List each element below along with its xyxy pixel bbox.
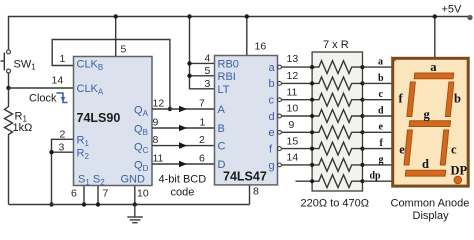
svg-text:11: 11 bbox=[153, 153, 164, 165]
clock waveform symbol bbox=[56, 93, 67, 103]
svg-text:A: A bbox=[218, 104, 226, 116]
wire S1 drop bbox=[83, 186, 85, 205]
svg-text:a: a bbox=[269, 62, 276, 74]
resistor Re bbox=[312, 126, 362, 139]
node junction R1R2 ground bbox=[49, 202, 53, 206]
svg-text:13: 13 bbox=[287, 53, 299, 65]
arrow QC bbox=[179, 142, 187, 149]
svg-text:8: 8 bbox=[153, 134, 159, 146]
svg-text:e: e bbox=[379, 122, 384, 133]
svg-text:d: d bbox=[269, 111, 275, 123]
svg-text:d: d bbox=[422, 157, 429, 171]
svg-text:c: c bbox=[269, 95, 275, 107]
segment d bbox=[405, 170, 445, 176]
resistor Rf bbox=[312, 142, 362, 155]
node junction RBI stub bbox=[187, 74, 191, 78]
svg-text:74LS47: 74LS47 bbox=[223, 170, 267, 184]
svg-text:1: 1 bbox=[200, 117, 206, 129]
node junction S2 bbox=[96, 202, 100, 206]
wire QC to C bbox=[152, 145, 215, 147]
svg-text:5: 5 bbox=[205, 65, 211, 77]
svg-text:4: 4 bbox=[205, 53, 211, 65]
resistor Rdp bbox=[312, 175, 362, 188]
svg-text:10: 10 bbox=[287, 103, 299, 115]
svg-text:b: b bbox=[269, 78, 275, 90]
display module body bbox=[393, 58, 469, 186]
svg-text:7: 7 bbox=[103, 188, 109, 200]
wire GND pin10 drop bbox=[134, 186, 136, 205]
svg-text:5: 5 bbox=[121, 44, 127, 56]
wire 74LS47 GND pin8 bbox=[249, 185, 251, 205]
svg-text:6: 6 bbox=[71, 188, 77, 200]
node junction rail display anode bbox=[433, 14, 437, 18]
svg-text:9: 9 bbox=[153, 117, 159, 129]
svg-text:GND: GND bbox=[121, 174, 146, 186]
segment g bbox=[409, 121, 450, 127]
wire S2 drop bbox=[97, 186, 99, 205]
svg-text:C: C bbox=[218, 141, 226, 153]
svg-text:b: b bbox=[378, 73, 384, 84]
svg-text:Clock: Clock bbox=[29, 93, 57, 105]
svg-text:c: c bbox=[451, 143, 457, 157]
svg-text:2: 2 bbox=[60, 129, 66, 141]
svg-text:RB0: RB0 bbox=[218, 59, 239, 71]
svg-text:a: a bbox=[430, 60, 437, 74]
svg-text:220Ω to 470Ω: 220Ω to 470Ω bbox=[301, 198, 369, 210]
wire +5V top rail bbox=[9, 17, 471, 50]
wire QB to B bbox=[152, 127, 215, 129]
node junction rail pin5 bbox=[114, 14, 118, 18]
svg-text:Common Anode: Common Anode bbox=[391, 198, 470, 210]
node junction QA feedback bbox=[168, 107, 172, 111]
switch SW1 bbox=[1, 50, 11, 73]
display bevel corner bbox=[391, 57, 395, 61]
segment f bbox=[407, 82, 415, 117]
resistor Rc bbox=[312, 93, 362, 106]
svg-text:74LS90: 74LS90 bbox=[77, 111, 121, 125]
svg-text:1kΩ: 1kΩ bbox=[13, 122, 33, 134]
resistor R1 bbox=[5, 88, 13, 205]
svg-text:12: 12 bbox=[287, 70, 299, 82]
svg-text:B: B bbox=[218, 123, 225, 135]
wires resistor pack to display bbox=[363, 67, 392, 181]
op-amp U1 74LS90 body bbox=[74, 57, 153, 186]
svg-text:12: 12 bbox=[153, 98, 165, 110]
svg-text:15: 15 bbox=[287, 136, 299, 148]
wire ground rail bbox=[9, 204, 250, 206]
svg-text:g: g bbox=[424, 108, 431, 122]
node +5V terminal bbox=[467, 15, 472, 20]
arrow QD bbox=[179, 161, 187, 168]
svg-text:8: 8 bbox=[253, 186, 259, 198]
svg-text:10: 10 bbox=[137, 188, 149, 200]
node junction rail RB0 bbox=[187, 14, 191, 18]
resistor pack box 7xR bbox=[312, 52, 362, 191]
svg-text:code: code bbox=[171, 187, 195, 199]
svg-text:c: c bbox=[379, 89, 384, 100]
svg-text:d: d bbox=[378, 105, 384, 116]
arrow QA bbox=[179, 106, 187, 113]
arrow QB bbox=[179, 125, 187, 132]
wire clock to CLKA pin14 bbox=[9, 87, 74, 89]
svg-text:3: 3 bbox=[205, 78, 211, 90]
node junction GND bbox=[133, 202, 137, 206]
ground bbox=[127, 205, 143, 223]
wire anode drop to display bbox=[434, 17, 436, 58]
svg-text:+5V: +5V bbox=[442, 4, 463, 16]
svg-text:g: g bbox=[379, 154, 384, 165]
node junction R2 bbox=[49, 150, 53, 154]
svg-text:LT: LT bbox=[218, 84, 230, 96]
segment c bbox=[440, 130, 448, 165]
svg-text:14: 14 bbox=[52, 75, 64, 87]
svg-text:7: 7 bbox=[199, 98, 205, 110]
resistor Rd bbox=[312, 110, 362, 123]
svg-text:7 x R: 7 x R bbox=[323, 39, 349, 51]
svg-text:16: 16 bbox=[255, 41, 267, 53]
resistor Ra bbox=[312, 61, 362, 74]
svg-text:a: a bbox=[378, 57, 383, 68]
op-amp U2 74LS47 body bbox=[215, 56, 278, 185]
svg-text:11: 11 bbox=[287, 87, 298, 99]
svg-text:b: b bbox=[454, 92, 461, 106]
resistor Rg bbox=[312, 159, 362, 172]
wire reset R1R2 vertical bbox=[52, 139, 74, 204]
segment b bbox=[445, 82, 453, 117]
svg-text:9: 9 bbox=[289, 119, 295, 131]
svg-text:1: 1 bbox=[60, 53, 66, 65]
svg-text:3: 3 bbox=[59, 142, 65, 154]
svg-text:14: 14 bbox=[287, 152, 299, 164]
svg-text:2: 2 bbox=[199, 134, 205, 146]
svg-text:4-bit BCD: 4-bit BCD bbox=[159, 174, 207, 186]
wire QA to A bbox=[152, 108, 215, 110]
svg-text:e: e bbox=[269, 127, 275, 139]
wire RB0/RBI/LT pull-up drop bbox=[190, 17, 215, 89]
segment a bbox=[414, 73, 454, 79]
node junction rail pin16 bbox=[245, 14, 249, 18]
svg-text:DP: DP bbox=[451, 164, 468, 178]
wire QD to D bbox=[152, 163, 215, 165]
svg-text:e: e bbox=[399, 143, 405, 157]
node clock junction bbox=[6, 86, 10, 90]
wire dp stub bbox=[296, 180, 313, 182]
segment e bbox=[404, 130, 412, 165]
wire QA feedback to CLKB pin1 bbox=[52, 40, 170, 110]
resistor Rb bbox=[312, 77, 362, 90]
segment DP bbox=[454, 176, 462, 184]
node junction S1 bbox=[82, 202, 86, 206]
svg-text:dp: dp bbox=[370, 171, 382, 182]
svg-text:g: g bbox=[269, 160, 275, 172]
node junction RB0 stub bbox=[187, 61, 191, 65]
wire SW1 to clock node bbox=[8, 73, 10, 88]
svg-text:RBI: RBI bbox=[218, 71, 236, 83]
wires 74LS47 outputs to resistor pack bbox=[278, 65, 313, 167]
wire Vcc pin16 drop to 74LS47 bbox=[246, 17, 248, 56]
svg-text:6: 6 bbox=[199, 153, 205, 165]
wire Vcc pin5 drop to 74LS90 bbox=[115, 17, 117, 57]
svg-text:Display: Display bbox=[413, 210, 450, 222]
